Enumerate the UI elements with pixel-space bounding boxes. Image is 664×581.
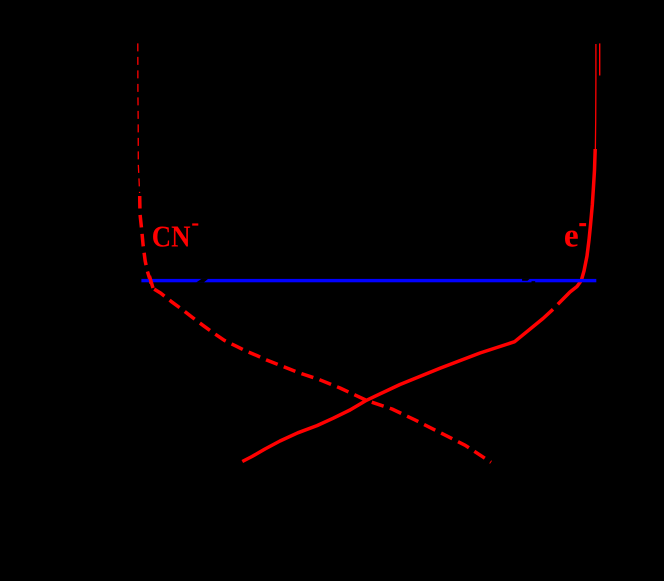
blue horizontal line [141, 279, 596, 282]
dashed CN- curve: thick lower part [140, 190, 491, 462]
slanted dash gap in blue line near x=200 [196, 279, 208, 283]
notch in blue line near x=533 (bottom half) [532, 281, 536, 282]
solid e- curve: thin hairpin return segment at top [599, 43, 601, 75]
dashed CN- curve: thin upper part [138, 43, 140, 193]
svg-text:CN: CN [152, 219, 191, 254]
superscript minus of CN- [192, 223, 198, 225]
notch in blue line near x=526 (top half) [522, 279, 530, 281]
superscript minus of e- [579, 223, 586, 226]
solid e- curve: thin top continuation [594, 44, 597, 155]
svg-text:e: e [564, 218, 579, 255]
red dash of CN- curve drawn over the blue line at the left crossing [149, 276, 153, 288]
solid e- curve: main thick part (lower segment, ends at small gap) [242, 309, 553, 461]
solid e- curve: thick part above the small gap, up to where it thins [558, 149, 595, 304]
